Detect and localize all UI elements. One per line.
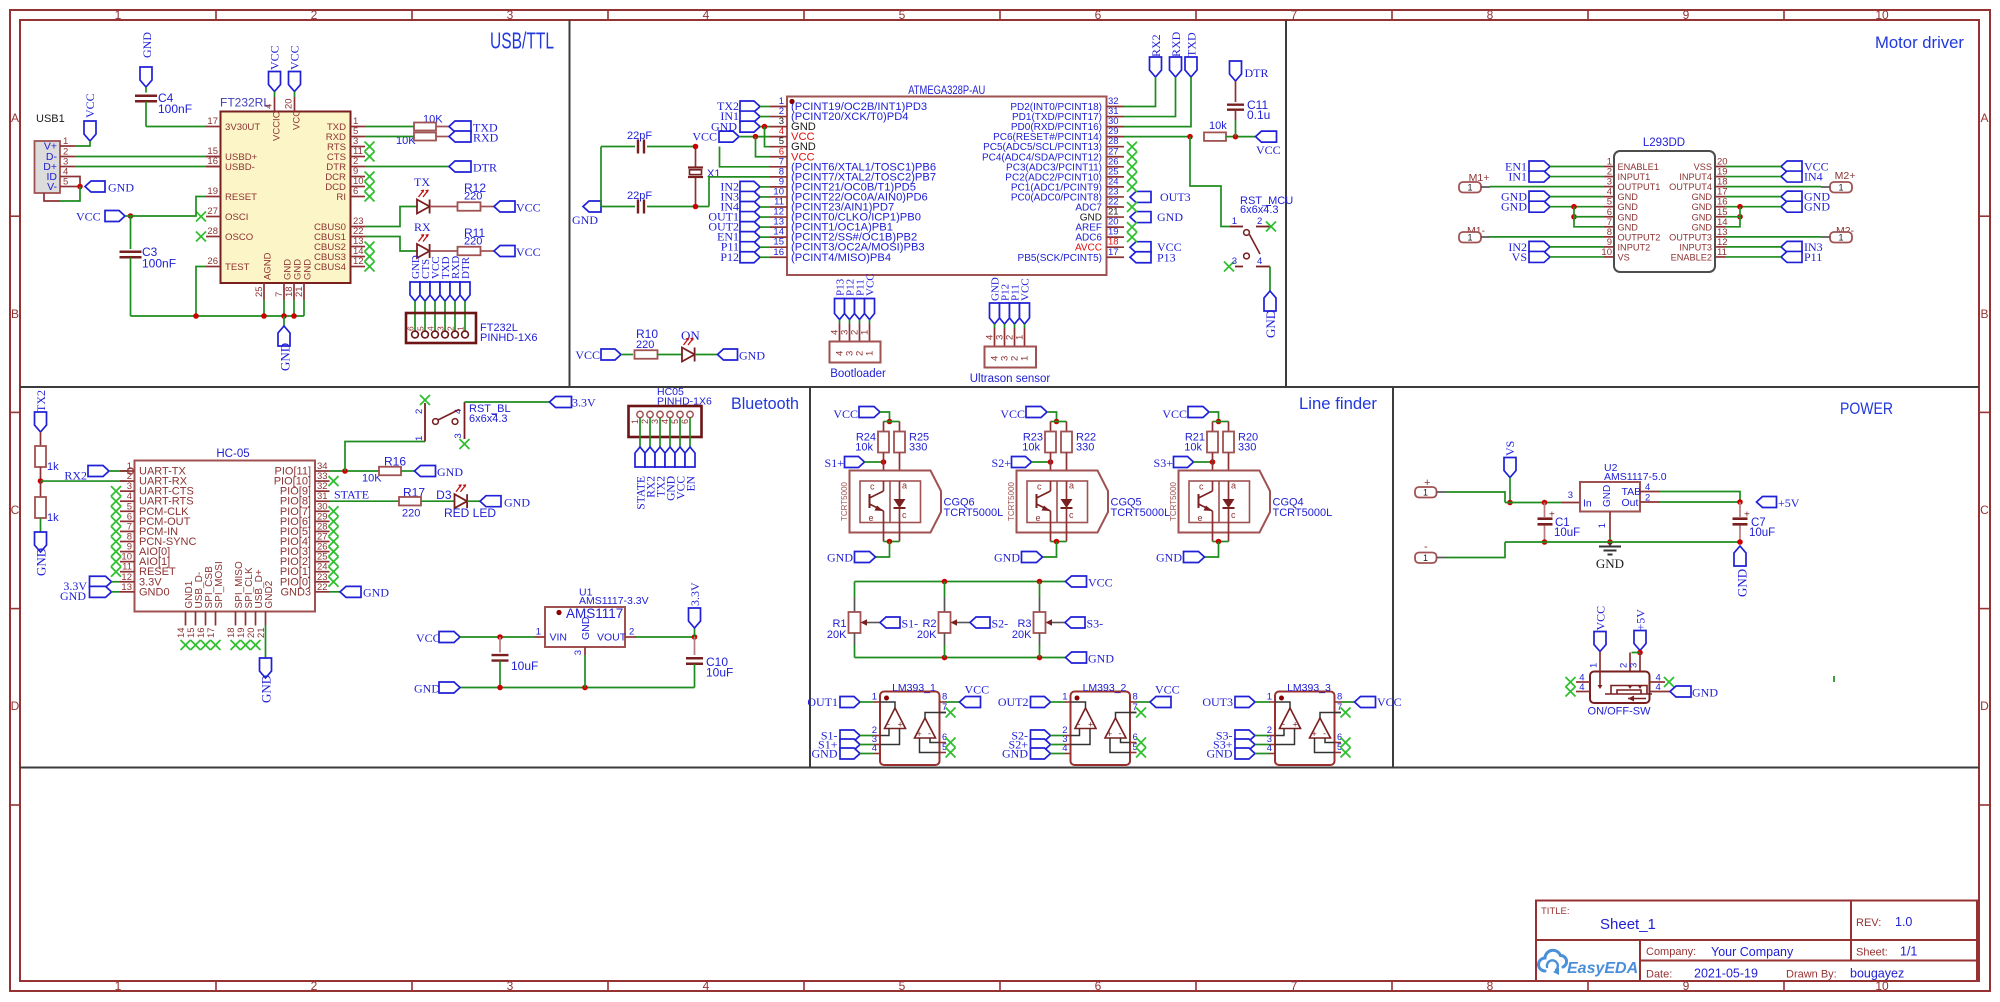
svg-text:10k: 10k — [855, 442, 873, 454]
svg-text:EN: EN — [686, 475, 698, 491]
svg-text:B: B — [1980, 307, 1988, 321]
svg-text:220: 220 — [464, 191, 482, 203]
svg-text:VCC: VCC — [575, 348, 600, 362]
svg-text:Ultrason sensor: Ultrason sensor — [970, 373, 1051, 385]
svg-text:1: 1 — [1597, 523, 1608, 528]
svg-text:INPUT2: INPUT2 — [1618, 242, 1651, 252]
svg-text:3: 3 — [507, 8, 514, 22]
svg-text:VCC: VCC — [1020, 278, 1032, 301]
svg-text:3: 3 — [1568, 490, 1573, 501]
svg-text:1: 1 — [536, 627, 541, 638]
svg-text:TX: TX — [414, 175, 430, 189]
svg-text:TEST: TEST — [225, 262, 250, 273]
svg-text:27: 27 — [207, 206, 218, 217]
svg-text:GND: GND — [1263, 310, 1278, 338]
svg-text:VCC: VCC — [1162, 407, 1187, 421]
svg-text:RX2: RX2 — [64, 469, 87, 483]
svg-text:D3: D3 — [436, 488, 452, 502]
svg-text:22: 22 — [317, 582, 328, 593]
svg-text:e: e — [869, 513, 874, 523]
svg-text:26: 26 — [207, 256, 218, 267]
svg-text:3: 3 — [573, 650, 584, 655]
svg-text:7: 7 — [1291, 8, 1298, 22]
svg-text:LM393_1: LM393_1 — [892, 682, 936, 694]
svg-text:RED LED: RED LED — [444, 506, 496, 520]
svg-text:GND3: GND3 — [280, 586, 311, 598]
svg-text:GND: GND — [1618, 202, 1639, 212]
svg-text:V-: V- — [47, 181, 57, 193]
svg-text:RX2: RX2 — [1149, 34, 1163, 57]
svg-text:P13: P13 — [1157, 250, 1176, 264]
svg-text:a: a — [902, 481, 907, 491]
svg-text:20: 20 — [284, 98, 295, 109]
svg-text:GND: GND — [1735, 569, 1750, 597]
svg-text:e: e — [1198, 513, 1203, 523]
svg-text:TCRT5000L: TCRT5000L — [1273, 507, 1333, 519]
svg-text:1: 1 — [630, 419, 640, 424]
svg-text:GND: GND — [1618, 192, 1639, 202]
svg-text:17: 17 — [1108, 247, 1119, 258]
svg-text:+: + — [898, 720, 903, 730]
svg-text:GND: GND — [1207, 747, 1233, 761]
svg-text:OUTPUT2: OUTPUT2 — [1618, 232, 1661, 242]
svg-text:bougayez: bougayez — [1850, 967, 1904, 981]
svg-text:c: c — [870, 482, 875, 492]
svg-text:6x6x4.3: 6x6x4.3 — [469, 413, 508, 425]
svg-text:Date:: Date: — [1646, 969, 1672, 981]
svg-text:2: 2 — [311, 979, 318, 993]
svg-text:Out: Out — [1622, 497, 1639, 509]
svg-text:OSCI: OSCI — [225, 212, 248, 223]
svg-text:5: 5 — [63, 177, 68, 188]
svg-text:GND: GND — [303, 259, 314, 280]
svg-text:1: 1 — [456, 326, 466, 331]
svg-text:GND: GND — [259, 675, 274, 703]
svg-text:ENABLE1: ENABLE1 — [1618, 162, 1659, 172]
svg-text:DTR: DTR — [460, 256, 472, 279]
svg-text:GND: GND — [812, 747, 838, 761]
svg-text:2: 2 — [640, 419, 650, 424]
svg-text:GND: GND — [108, 181, 134, 195]
svg-text:VCC: VCC — [1377, 695, 1402, 709]
svg-text:GND: GND — [1602, 485, 1613, 507]
svg-text:17: 17 — [207, 116, 218, 127]
svg-text:S2+: S2+ — [992, 456, 1012, 470]
svg-text:VCC: VCC — [833, 407, 858, 421]
svg-text:4: 4 — [1257, 256, 1262, 267]
svg-text:GND: GND — [827, 551, 853, 565]
svg-text:10: 10 — [1875, 8, 1889, 22]
svg-text:GND: GND — [1501, 200, 1527, 214]
svg-text:1: 1 — [115, 979, 122, 993]
svg-text:10uF: 10uF — [511, 659, 538, 673]
svg-text:D: D — [1980, 699, 1989, 713]
svg-text:2: 2 — [414, 409, 425, 414]
svg-text:A: A — [1980, 111, 1988, 125]
svg-text:S1-: S1- — [902, 617, 919, 631]
svg-text:STATE: STATE — [334, 488, 369, 502]
svg-text:2: 2 — [629, 627, 634, 638]
svg-text:3V30UT: 3V30UT — [225, 122, 260, 133]
svg-text:PB5(SCK/PCINT5): PB5(SCK/PCINT5) — [1018, 253, 1102, 264]
svg-text:28: 28 — [207, 226, 218, 237]
svg-text:330: 330 — [1076, 442, 1094, 454]
svg-text:Motor driver: Motor driver — [1875, 34, 1964, 52]
svg-text:-: - — [928, 729, 931, 739]
svg-text:VCC: VCC — [292, 110, 303, 130]
svg-text:1: 1 — [1232, 216, 1237, 227]
svg-text:TCRT5000: TCRT5000 — [840, 481, 849, 521]
svg-text:PINHD-1X6: PINHD-1X6 — [480, 332, 537, 344]
svg-text:220: 220 — [636, 339, 654, 351]
svg-text:GND: GND — [504, 496, 530, 510]
svg-text:4: 4 — [426, 326, 436, 331]
svg-text:+: + — [1293, 720, 1298, 730]
svg-text:100nF: 100nF — [158, 102, 192, 116]
svg-text:GND: GND — [363, 585, 389, 599]
svg-text:4: 4 — [264, 104, 275, 109]
svg-text:OUTPUT1: OUTPUT1 — [1618, 182, 1661, 192]
svg-text:USBD-: USBD- — [225, 162, 255, 173]
svg-text:1.0: 1.0 — [1895, 915, 1912, 929]
svg-text:2: 2 — [311, 8, 318, 22]
svg-text:2: 2 — [1257, 216, 1262, 227]
svg-text:TCRT5000L: TCRT5000L — [944, 507, 1004, 519]
svg-text:REV:: REV: — [1856, 917, 1881, 929]
svg-text:S2-: S2- — [992, 617, 1009, 631]
svg-text:TITLE:: TITLE: — [1541, 906, 1570, 917]
svg-text:3: 3 — [650, 419, 660, 424]
svg-text:3: 3 — [1232, 256, 1237, 267]
svg-text:AMS1117-5.0: AMS1117-5.0 — [1604, 471, 1667, 483]
svg-text:Bootloader: Bootloader — [830, 368, 886, 380]
svg-text:B: B — [11, 307, 19, 321]
svg-text:4: 4 — [660, 419, 670, 424]
svg-text:Bluetooth: Bluetooth — [731, 395, 799, 413]
svg-text:6: 6 — [353, 186, 358, 197]
svg-text:OUTPUT4: OUTPUT4 — [1669, 182, 1712, 192]
svg-text:GND: GND — [1692, 212, 1713, 222]
svg-text:In: In — [1583, 498, 1592, 510]
svg-text:c: c — [902, 510, 907, 520]
svg-text:VCC: VCC — [965, 683, 990, 697]
svg-text:VCC: VCC — [1256, 143, 1281, 157]
svg-text:RESET: RESET — [225, 192, 257, 203]
svg-text:VCC: VCC — [288, 45, 302, 70]
svg-text:6: 6 — [1095, 8, 1102, 22]
svg-text:C: C — [1980, 503, 1989, 517]
svg-text:GND: GND — [1618, 222, 1639, 232]
svg-text:100nF: 100nF — [142, 257, 176, 271]
svg-text:-: - — [887, 719, 890, 729]
svg-text:a: a — [1231, 481, 1236, 491]
svg-text:GND: GND — [1692, 202, 1713, 212]
svg-text:INPUT3: INPUT3 — [1679, 242, 1712, 252]
svg-text:VCC: VCC — [516, 245, 541, 259]
svg-text:10k: 10k — [1209, 120, 1227, 132]
svg-text:GND: GND — [140, 32, 154, 58]
svg-text:c: c — [1037, 482, 1042, 492]
svg-text:3.3V: 3.3V — [572, 396, 596, 410]
svg-text:VOUT: VOUT — [597, 632, 627, 644]
svg-text:GND: GND — [1002, 747, 1028, 761]
svg-text:19: 19 — [207, 186, 218, 197]
svg-text:TCRT5000: TCRT5000 — [1007, 481, 1016, 521]
svg-text:8: 8 — [1487, 8, 1494, 22]
svg-text:INPUT4: INPUT4 — [1679, 172, 1712, 182]
svg-text:7: 7 — [1291, 979, 1298, 993]
svg-text:GND0: GND0 — [139, 586, 170, 598]
svg-text:3: 3 — [1629, 663, 1640, 668]
svg-text:S3-: S3- — [1087, 617, 1104, 631]
svg-text:Sheet:: Sheet: — [1856, 947, 1888, 959]
svg-text:22pF: 22pF — [627, 130, 652, 142]
svg-text:VCC: VCC — [76, 210, 101, 224]
svg-text:VS: VS — [1618, 252, 1630, 262]
svg-text:TX2: TX2 — [34, 390, 48, 412]
svg-text:USB/TTL: USB/TTL — [490, 28, 554, 54]
svg-text:LM393_2: LM393_2 — [1083, 682, 1127, 694]
svg-text:5: 5 — [670, 419, 680, 424]
svg-text:GND: GND — [739, 349, 765, 363]
svg-text:10uF: 10uF — [706, 666, 733, 680]
svg-text:EasyEDA: EasyEDA — [1567, 960, 1638, 977]
svg-text:1: 1 — [1020, 356, 1031, 361]
svg-text:0.1u: 0.1u — [1247, 108, 1270, 122]
svg-text:21: 21 — [294, 286, 305, 297]
svg-text:5: 5 — [416, 326, 426, 331]
svg-text:GND: GND — [60, 589, 86, 603]
svg-text:6: 6 — [1095, 979, 1102, 993]
svg-text:10k: 10k — [1184, 442, 1202, 454]
svg-text:VCC: VCC — [1155, 683, 1180, 697]
svg-text:DTR: DTR — [473, 161, 497, 175]
svg-text:-: - — [1424, 541, 1428, 553]
svg-text:12: 12 — [353, 256, 364, 267]
svg-text:1: 1 — [1467, 233, 1472, 243]
svg-text:1: 1 — [1838, 183, 1843, 193]
svg-text:16: 16 — [773, 247, 784, 258]
svg-text:1: 1 — [1423, 553, 1428, 563]
svg-text:17: 17 — [206, 627, 217, 638]
svg-text:GND: GND — [1618, 212, 1639, 222]
svg-text:TXD: TXD — [1185, 32, 1199, 57]
svg-text:INPUT1: INPUT1 — [1618, 172, 1651, 182]
svg-text:5: 5 — [899, 979, 906, 993]
svg-text:1: 1 — [872, 692, 877, 703]
svg-text:OUT3: OUT3 — [1160, 190, 1191, 204]
svg-text:8: 8 — [1487, 979, 1494, 993]
svg-text:IN4: IN4 — [1804, 170, 1823, 184]
svg-text:6x6x4.3: 6x6x4.3 — [1240, 204, 1279, 216]
svg-text:S1+: S1+ — [825, 456, 845, 470]
svg-text:-: - — [1323, 729, 1326, 739]
svg-text:1: 1 — [1062, 692, 1067, 703]
svg-text:P12: P12 — [720, 250, 739, 264]
svg-text:RXD: RXD — [1169, 31, 1183, 57]
svg-text:RX: RX — [414, 220, 431, 234]
svg-text:4: 4 — [1656, 682, 1661, 693]
svg-text:P11: P11 — [1804, 250, 1822, 264]
svg-text:VCCIO: VCCIO — [272, 111, 283, 141]
svg-text:GND: GND — [437, 465, 463, 479]
svg-text:ON/OFF-SW: ON/OFF-SW — [1588, 706, 1652, 718]
svg-text:GND: GND — [1157, 210, 1183, 224]
svg-text:S3+: S3+ — [1154, 456, 1174, 470]
svg-text:20K: 20K — [1012, 629, 1032, 641]
svg-text:ENABLE2: ENABLE2 — [1671, 252, 1712, 262]
svg-text:VCC: VCC — [1594, 606, 1608, 631]
svg-text:220: 220 — [464, 236, 482, 248]
svg-text:4: 4 — [1645, 482, 1650, 493]
svg-text:Drawn By:: Drawn By: — [1786, 969, 1837, 981]
svg-text:20K: 20K — [827, 629, 847, 641]
svg-text:VSS: VSS — [1694, 162, 1712, 172]
svg-text:-: - — [1119, 729, 1122, 739]
svg-text:a: a — [1069, 481, 1074, 491]
svg-text:9: 9 — [1683, 8, 1690, 22]
svg-text:13: 13 — [121, 582, 132, 593]
svg-text:D: D — [11, 699, 20, 713]
svg-text:VCC: VCC — [865, 273, 877, 296]
svg-text:SPI_MOSI: SPI_MOSI — [214, 561, 225, 608]
svg-text:VCC: VCC — [692, 130, 717, 144]
svg-text:6: 6 — [680, 419, 690, 424]
svg-text:22pF: 22pF — [627, 190, 652, 202]
svg-text:1: 1 — [1838, 233, 1843, 243]
svg-text:TCRT5000L: TCRT5000L — [1111, 507, 1171, 519]
svg-text:10k: 10k — [1022, 442, 1040, 454]
svg-text:5: 5 — [899, 8, 906, 22]
svg-text:GND: GND — [572, 213, 598, 227]
svg-text:(PCINT4/MISO)PB4: (PCINT4/MISO)PB4 — [791, 252, 891, 264]
svg-text:GND: GND — [414, 682, 440, 696]
svg-text:VCC: VCC — [416, 631, 441, 645]
svg-text:1k: 1k — [47, 512, 59, 524]
svg-text:LM393_3: LM393_3 — [1287, 682, 1331, 694]
svg-text:GND: GND — [1692, 192, 1713, 202]
svg-text:1: 1 — [414, 436, 425, 441]
svg-text:VCC: VCC — [1000, 407, 1025, 421]
svg-text:8: 8 — [1337, 692, 1342, 703]
svg-text:8: 8 — [942, 692, 947, 703]
svg-text:1: 1 — [865, 351, 876, 356]
svg-text:+5V: +5V — [1778, 496, 1800, 510]
svg-text:1: 1 — [1423, 488, 1428, 498]
svg-text:RXD: RXD — [473, 131, 499, 145]
svg-text:TCRT5000: TCRT5000 — [1169, 481, 1178, 521]
svg-text:USB1: USB1 — [36, 113, 65, 125]
svg-text:1: 1 — [1267, 692, 1272, 703]
svg-text:3.3V: 3.3V — [688, 582, 702, 606]
svg-text:1: 1 — [115, 8, 122, 22]
svg-text:c: c — [1199, 482, 1204, 492]
svg-text:e: e — [1036, 513, 1041, 523]
svg-text:GND2: GND2 — [264, 580, 275, 608]
svg-text:3: 3 — [507, 979, 514, 993]
svg-text:25: 25 — [254, 286, 265, 297]
svg-text:DTR: DTR — [1245, 66, 1269, 80]
svg-text:1: 1 — [1589, 663, 1600, 668]
svg-text:8: 8 — [1133, 692, 1138, 703]
svg-text:GND: GND — [1088, 652, 1114, 666]
svg-text:GND: GND — [1692, 222, 1713, 232]
svg-text:AGND: AGND — [263, 252, 274, 280]
svg-text:CBUS4: CBUS4 — [314, 262, 347, 273]
svg-text:1k: 1k — [47, 461, 59, 473]
svg-text:Sheet_1: Sheet_1 — [1600, 916, 1656, 933]
svg-text:OUT1: OUT1 — [807, 695, 838, 709]
svg-text:VCC: VCC — [1088, 576, 1113, 590]
svg-text:A: A — [11, 111, 19, 125]
svg-text:10uF: 10uF — [1554, 527, 1580, 539]
svg-text:+: + — [1088, 720, 1093, 730]
svg-text:GND: GND — [580, 616, 592, 640]
svg-text:+5V: +5V — [1634, 609, 1648, 631]
svg-text:GND: GND — [1804, 200, 1830, 214]
svg-text:20K: 20K — [917, 629, 937, 641]
svg-text:VS: VS — [1512, 250, 1527, 264]
svg-text:c: c — [1069, 510, 1074, 520]
svg-text:16: 16 — [207, 156, 218, 167]
svg-text:330: 330 — [909, 442, 927, 454]
svg-text:4: 4 — [703, 979, 710, 993]
svg-text:IN1: IN1 — [1508, 170, 1527, 184]
svg-text:OUT2: OUT2 — [998, 695, 1029, 709]
svg-text:GND: GND — [34, 548, 49, 576]
svg-text:220: 220 — [402, 508, 420, 520]
svg-text:VS: VS — [1503, 441, 1517, 456]
svg-text:+: + — [1107, 729, 1112, 739]
svg-text:ATMEGA328P-AU: ATMEGA328P-AU — [908, 85, 985, 97]
svg-text:10uF: 10uF — [1749, 527, 1775, 539]
svg-text:2: 2 — [446, 326, 456, 331]
svg-text:-: - — [1078, 719, 1081, 729]
svg-text:POWER: POWER — [1840, 400, 1893, 418]
svg-text:1: 1 — [1015, 335, 1026, 340]
svg-text:+: + — [1312, 729, 1317, 739]
svg-text:c: c — [1231, 510, 1236, 520]
svg-text:GND: GND — [994, 551, 1020, 565]
svg-text:+: + — [917, 729, 922, 739]
svg-text:1: 1 — [860, 330, 871, 335]
svg-text:GND: GND — [278, 343, 293, 371]
svg-text:3: 3 — [436, 326, 446, 331]
svg-text:4: 4 — [703, 8, 710, 22]
svg-text:1: 1 — [1467, 183, 1472, 193]
svg-text:GND: GND — [1692, 686, 1718, 700]
svg-text:GND: GND — [1156, 551, 1182, 565]
svg-text:4: 4 — [1579, 682, 1584, 693]
svg-text:VCC: VCC — [516, 201, 541, 215]
svg-text:VCC: VCC — [83, 93, 97, 118]
svg-text:-: - — [1282, 719, 1285, 729]
svg-text:C: C — [11, 503, 20, 517]
svg-text:OUTPUT3: OUTPUT3 — [1669, 232, 1712, 242]
svg-text:L293DD: L293DD — [1643, 137, 1685, 149]
svg-text:Company:: Company: — [1646, 946, 1696, 958]
svg-text:Your Company: Your Company — [1711, 945, 1794, 959]
svg-text:OUT3: OUT3 — [1202, 695, 1233, 709]
svg-text:1: 1 — [63, 136, 68, 147]
svg-text:AMS1117: AMS1117 — [566, 606, 623, 621]
svg-text:Line finder: Line finder — [1299, 395, 1378, 413]
svg-text:RI: RI — [336, 192, 346, 203]
svg-text:1/1: 1/1 — [1900, 945, 1917, 959]
svg-text:GND: GND — [1596, 556, 1624, 571]
svg-text:2: 2 — [1645, 493, 1650, 504]
svg-text:OSCO: OSCO — [225, 232, 253, 243]
